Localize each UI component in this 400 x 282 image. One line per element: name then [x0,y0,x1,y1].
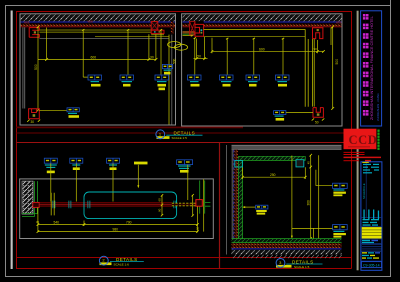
P1 lower ceiling lines [95,35,169,37]
cyan info rows mid [363,219,380,226]
P3 stone hatch block [22,181,33,214]
P1 footer title line [166,134,202,136]
P4 footer detail bubble [276,259,285,268]
P1 label group 1 [88,75,102,87]
P4 left blue dashed line [233,150,235,249]
panel P2 border [182,14,342,126]
box2 internal vertical rule [365,162,367,217]
P2 dim 50 left line and ticks [194,58,208,60]
P4 label L1 [333,183,348,196]
P3 cyan rounded rectangle [84,192,177,219]
P4 top concrete gray band [232,145,342,149]
svg-text:CCD: CCD [349,133,378,147]
lower sheet red line [16,257,351,259]
P1 concrete slab hatch band [21,15,175,22]
P1 right furring bar [151,30,164,33]
P1 bottom dim 30 [27,120,40,122]
sheet divider red line [16,142,351,144]
P3 label group 1 [44,158,57,173]
svg-text:C9-305-14: C9-305-14 [363,263,380,267]
P1 right blocking X-box [151,22,158,30]
P2 label group 3 [246,75,260,87]
P2 red line under plaster [183,26,342,28]
P2 bottom label box [274,111,286,115]
black out slab under blocking [189,21,204,27]
svg-text:540: 540 [54,221,60,225]
svg-text:500: 500 [173,58,177,64]
svg-text:W06: W06 [336,20,342,24]
CCD red lines below [344,151,365,153]
P2 yellow line with arrow [183,35,193,37]
svg-text:DETAILS: DETAILS [174,131,196,136]
svg-text:SCALE 1:5: SCALE 1:5 [172,136,188,140]
P3 yellow stud pair [51,193,54,216]
P2 slab blue line [183,21,342,23]
P1 dim ext line [47,28,156,60]
P4 cyan square 1 [235,160,243,167]
CCD logo red box [344,129,377,150]
P2 top right red bracket [313,28,323,39]
svg-text:W06: W06 [88,20,94,24]
P2 label group 1 [188,75,202,87]
svg-text:600: 600 [259,47,265,51]
P3 ext vertical right [198,179,204,232]
P1 left wall double gray lines [23,27,25,108]
P4 leader to label L2 [292,227,333,229]
P4 left green finish strip [238,156,242,238]
svg-text:50: 50 [197,55,201,59]
P3 dashed wall segment [172,203,196,205]
svg-text:30: 30 [31,120,35,124]
P1 label group 2 [120,75,134,87]
P3 wall band [40,203,172,206]
char texture slits [363,14,369,120]
svg-text:700: 700 [126,221,132,225]
P4 left red plaster strip [234,150,238,244]
P4 leader to label L1 [316,170,333,186]
cyan info rows upper [363,164,379,174]
P2 label group 2 [220,75,234,87]
P2 ceiling lines [204,28,306,30]
P4 right vertical dim 45 300 [310,155,312,238]
P4 left gray strip [232,150,234,250]
yellow dash top [362,162,369,163]
P4 cyan square 2 [296,160,304,167]
svg-text:60: 60 [158,198,162,202]
P2 dim 50 left ext lines [197,37,205,60]
P2 wall vertical lines [305,29,314,106]
vertical red divider between bottom panels [219,143,221,269]
P1 plaster red dotted strip [21,24,175,26]
P3 green wall verticals [200,181,205,214]
P1 leader lines to labels [83,30,161,77]
P1 red dotted strip at right border [171,21,174,33]
svg-text:500: 500 [335,59,339,65]
P2 short vertical line [330,28,332,46]
svg-text:DETAILS: DETAILS [292,259,314,264]
P4 bottom green finish band [232,239,342,243]
P4 dim 250 [243,176,306,178]
box2 cell rules [361,218,382,261]
P4 soil hatch fringe [233,255,342,258]
P1 vertical dim 500 line [37,27,39,111]
P1 ceiling yellow lines [40,30,152,32]
P3 label group 4 [177,160,193,173]
P1 label group 3 [155,75,169,90]
P3 inner vertical dim [161,195,163,215]
svg-text:50: 50 [315,121,319,125]
P2 bottom leader [286,112,313,114]
P3 red selection square [196,200,202,207]
outer paper frame gray right [390,0,392,277]
svg-text:250: 250 [270,173,276,177]
title block upper blue box [361,11,382,126]
P3 note leader with arrow [137,165,139,187]
P2 bottom dim 50 [312,118,325,120]
P3 dim line 980 [38,231,198,233]
P2 left red C bracket [195,24,204,36]
svg-text:500: 500 [34,64,38,70]
P1 bottom red bracket [29,109,40,119]
svg-text:SCHEDULE: SCHEDULE [362,183,366,199]
P3 dim line 540 700 [38,224,198,226]
micro text rows lower [362,252,380,258]
P3 label group 2 [70,158,83,170]
P3 footer title line [110,260,144,262]
svg-text:30: 30 [36,220,40,224]
P4 top green finish band [238,156,305,160]
P4 dim 250 ext lines [243,167,306,179]
svg-text:SCALE 1:6: SCALE 1:6 [114,262,130,266]
P3 green stub right [205,203,211,207]
maroon line under top panels [16,126,243,128]
P4 bottom concrete hatch band [232,250,342,255]
P2 blocking box with X [190,22,195,35]
P3 mid vertical dim [192,195,194,216]
svg-text:60: 60 [158,208,162,212]
svg-text:300: 300 [307,200,311,206]
P2 vertical dim 500 right [332,27,334,109]
svg-text:W06: W06 [24,20,30,24]
outer paper frame gray top [5,5,390,7]
P2 dim 600 line [212,50,318,52]
panel P1 border [20,14,176,125]
P2 bottom red bracket [313,108,323,118]
P1 horizontal dim 600 line [38,58,156,60]
revision cloud ellipses [168,42,181,48]
vertical entry bars [363,210,379,221]
P4 mid label [242,205,268,214]
P1 footer detail bubble circle [156,130,165,139]
P2 green line under wood band [183,33,195,35]
panel P3 border [20,179,214,239]
olive separator bar [357,11,359,271]
P4 short ext verticals [313,155,318,238]
green company micro text column [377,130,379,150]
P2 dim 600 ext lines [212,38,318,54]
P1 right wall double lines [168,35,170,125]
svg-text:45: 45 [307,161,311,165]
P2 label group 4 [276,75,290,87]
magenta Chinese project name column [363,14,369,116]
yellow highlight block [362,227,382,238]
P1 right side label box [162,64,172,74]
P4 left outer border line [225,145,227,255]
P1 top-left red bracket profile [29,28,39,38]
P1 yellow line under furring [151,34,164,36]
P3 ext vertical left [38,208,84,233]
P3 label group 3 [107,158,120,170]
P3 green finish lines L-shape [22,181,37,217]
P3 cyan ticks on wall [53,201,176,209]
svg-text:ZHONGSHAN . CHINA: ZHONGSHAN . CHINA [376,93,380,121]
svg-text:30: 30 [196,227,200,231]
outer paper frame gray bottom [5,276,391,278]
P4 footer title line [286,263,322,265]
outer paper frame gray left [5,5,7,277]
title block lower blue box [361,162,382,270]
P1 bottom leader [39,109,67,111]
thin dark blue rule lines [362,245,381,250]
P2 leader lines to labels [195,38,283,75]
P1 bottom label box [67,108,79,112]
svg-text:DETAILS: DETAILS [116,257,138,262]
svg-text:30: 30 [150,56,154,60]
cyan blue segments row [362,240,370,241]
P1 red line under plaster [21,26,175,28]
P4 long leader vertical [291,156,293,238]
maroon line 2 full width [16,132,351,134]
left bright scroll bar [11,11,13,270]
sheet red border rectangle [16,11,352,269]
P3 footer detail bubble [99,256,108,265]
svg-text:SCALE 1:5: SCALE 1:5 [294,265,310,269]
svg-text:980: 980 [113,228,119,232]
P4 bottom blue line [232,248,342,250]
P3 red connector block [33,202,39,207]
P2 plaster red dotted strip [183,24,342,26]
P4 label L2 [333,225,348,238]
P2 wood ceiling band left [183,31,195,34]
svg-text:ZHONGSHAN INTERNATIONAL FINANC: ZHONGSHAN INTERNATIONAL FINANCE CENTRE H… [370,16,374,120]
P2 concrete slab hatch band [183,15,342,22]
P3 yellow note text [134,162,148,165]
drawing number box [361,262,381,268]
P2 dim 50 right [318,50,324,52]
svg-text:600: 600 [91,56,97,60]
P3 leader lines [51,163,188,201]
P1 slab blue line [21,21,175,23]
P4 bottom red plaster band [232,243,342,248]
